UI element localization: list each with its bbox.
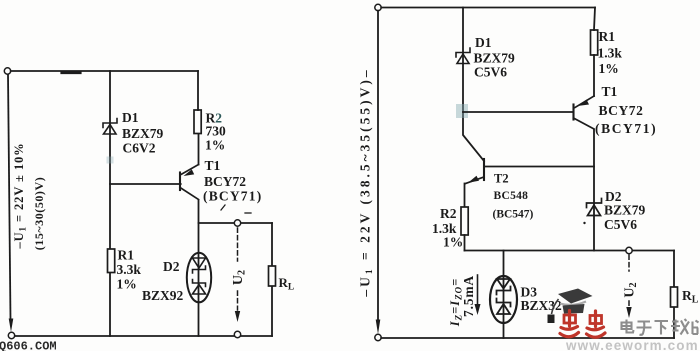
- svg-text:BZX79: BZX79: [122, 126, 164, 141]
- svg-text:T1: T1: [602, 84, 618, 99]
- transistor T1 left (PNP BCY72): [180, 165, 199, 200]
- wire: base wire T1 left: [110, 183, 181, 185]
- wire: RL branch left: [271, 223, 273, 336]
- stray pencil mark 2: [245, 212, 251, 214]
- svg-text:U2: U2: [623, 282, 640, 297]
- svg-text:BC548: BC548: [494, 190, 529, 202]
- svg-text:RL: RL: [279, 275, 295, 293]
- svg-text:R1: R1: [599, 29, 616, 44]
- wire: top rail left circuit: [11, 70, 198, 72]
- zener diode D2 (right) BZX79 C5V6: [587, 199, 602, 216]
- wire: bottom rail left circuit: [15, 335, 272, 337]
- svg-text:1%: 1%: [599, 61, 619, 76]
- voltage arrow U2 dashed (left): [237, 228, 239, 310]
- stray pencil mark 1: [221, 205, 225, 210]
- teal scan artifact at base junction: [456, 104, 468, 118]
- wire: bottom rail right circuit: [381, 337, 674, 339]
- svg-text:BZX79: BZX79: [604, 203, 646, 218]
- svg-text:–U1 = 22V (38.5~35(55)V)–: –U1 = 22V (38.5~35(55)V)–: [358, 67, 376, 297]
- svg-text:–U1 = 22V ± 10%: –U1 = 22V ± 10%: [12, 142, 28, 249]
- wire: D1/R1 middle branch: [109, 71, 111, 336]
- svg-text:730: 730: [206, 124, 227, 139]
- wire: emitter to R2: [198, 134, 200, 165]
- wire: output rail right circuit: [465, 250, 675, 252]
- resistor R2 (right) 1.3k: [461, 207, 468, 235]
- svg-text:3.3k: 3.3k: [117, 262, 142, 277]
- svg-text:1.3k: 1.3k: [598, 46, 623, 61]
- input terminal right bottom (-): [375, 334, 381, 340]
- smudge artifact on top rail: [62, 71, 80, 74]
- voltage arrow U1 (left input): [8, 75, 11, 321]
- resistor R2 (left) 730: [194, 110, 201, 134]
- stray dot mark: [583, 222, 585, 224]
- zener diode D1 (left) BZX79 C6V2: [103, 119, 117, 135]
- resistor RL (right): [671, 287, 678, 307]
- svg-text:D1: D1: [475, 35, 492, 50]
- svg-text:(BCY71): (BCY71): [595, 121, 657, 136]
- svg-text:R2: R2: [440, 206, 457, 221]
- wire: D3 branch: [503, 251, 505, 339]
- svg-text:R1: R1: [118, 248, 135, 263]
- svg-text:D1: D1: [122, 110, 139, 125]
- wire: D1 branch / T2 collector: [463, 8, 484, 162]
- voltage arrow U1 (right input): [377, 11, 379, 327]
- svg-text:C6V2: C6V2: [123, 141, 156, 156]
- svg-text:BCY72: BCY72: [599, 103, 644, 118]
- wire: output rail left circuit: [199, 222, 273, 224]
- wire: top rail to R1: [594, 8, 595, 31]
- svg-text:(BC547): (BC547): [493, 209, 534, 221]
- watermark graduation cap logo: [548, 289, 593, 324]
- svg-text:U2: U2: [231, 270, 248, 285]
- svg-text:1%: 1%: [117, 277, 137, 292]
- input terminal left bottom (-): [8, 332, 14, 338]
- wire: T2 emitter to R2: [464, 184, 466, 208]
- svg-text:BZX32: BZX32: [521, 298, 563, 313]
- wire: collector branch down through D2: [198, 200, 200, 336]
- wire: R2 to output rail: [464, 235, 466, 251]
- svg-text:RL: RL: [682, 288, 699, 306]
- wire: T1 collector down through D2: [593, 130, 595, 251]
- svg-text:BZX79: BZX79: [474, 51, 516, 66]
- output terminal left bottom: [234, 331, 240, 337]
- current arrow Iz through D3: [477, 275, 479, 306]
- svg-text:BCY72: BCY72: [204, 174, 246, 189]
- teal scan artifact on branch: [107, 157, 114, 164]
- wire: top rail right circuit: [381, 7, 595, 9]
- svg-text:C5V6: C5V6: [604, 217, 637, 232]
- transistor T1 right (PNP BCY72): [574, 96, 595, 129]
- wire: T1 base wire right: [463, 111, 574, 113]
- svg-text:(15~30(50)V): (15~30(50)V): [32, 177, 46, 251]
- svg-text:T2: T2: [494, 172, 509, 186]
- svg-text:1%: 1%: [443, 235, 463, 250]
- input terminal left top (+): [4, 68, 10, 74]
- svg-text:www.eeworm.com: www.eeworm.com: [565, 338, 699, 351]
- svg-text:BZX92: BZX92: [142, 288, 184, 303]
- bidirectional zener D3 BZX32: [490, 276, 517, 323]
- resistor R1 (right) 1.3k: [591, 30, 598, 55]
- svg-text:Q606.COM: Q606.COM: [0, 340, 57, 351]
- wire: RL branch right: [673, 251, 675, 339]
- svg-text:1%: 1%: [205, 138, 225, 153]
- svg-text:7.5mA: 7.5mA: [461, 275, 476, 317]
- svg-text:C5V6: C5V6: [474, 65, 507, 80]
- svg-text:T1: T1: [205, 158, 221, 173]
- transistor T2 (NPN BC548): [466, 159, 485, 184]
- zener diode D1 (right) BZX79 C5V6: [456, 48, 470, 64]
- input terminal right top (+): [375, 4, 381, 10]
- watermark gray text: dian zi xia zai zhan: [622, 319, 699, 335]
- bidirectional zener D2 (left) BZX92: [187, 253, 211, 303]
- watermark red bug characters: [560, 311, 605, 338]
- output terminal left top: [234, 220, 240, 226]
- wire: R2 to top rail: [197, 71, 199, 110]
- wire: R1 to T1 emitter: [593, 55, 595, 96]
- resistor RL (left): [269, 266, 276, 286]
- svg-text:D2: D2: [163, 259, 180, 274]
- resistor R1 (left) 3.3k: [108, 249, 115, 273]
- voltage arrow U2 dashed (right): [628, 255, 630, 309]
- output terminal right top: [626, 247, 632, 253]
- wire: T2 base wire: [484, 166, 594, 168]
- svg-text:(BCY71): (BCY71): [203, 189, 262, 204]
